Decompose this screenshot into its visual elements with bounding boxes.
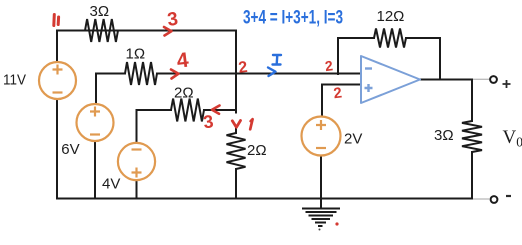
svg-text:1Ω: 1Ω [126,46,146,63]
svg-text:12Ω: 12Ω [377,8,405,25]
svg-text:2V: 2V [344,130,362,147]
svg-text:11V: 11V [3,72,26,89]
svg-text:3+4 = I+3+1, I=3: 3+4 = I+3+1, I=3 [243,8,343,29]
svg-text:3Ω: 3Ω [434,127,454,144]
svg-text:2Ω: 2Ω [174,85,194,102]
svg-text:6V: 6V [61,141,79,158]
svg-text:2Ω: 2Ω [247,142,267,159]
svg-text:4V: 4V [102,176,120,193]
svg-text:3Ω: 3Ω [90,3,110,20]
